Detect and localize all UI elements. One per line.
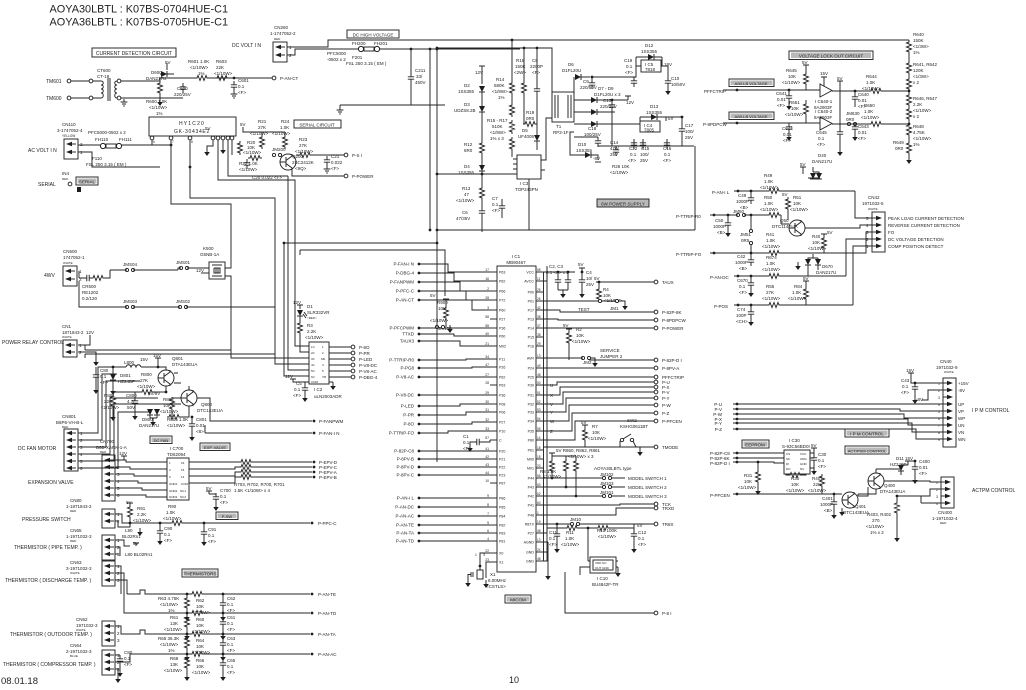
svg-text:D11: D11 (896, 456, 904, 461)
capacitor C7 (492, 196, 505, 218)
svg-text:COM: COM (311, 380, 319, 384)
svg-text:C600: C600 (177, 86, 188, 91)
svg-text:NC1: NC1 (180, 489, 186, 493)
svg-text:43: 43 (485, 463, 489, 467)
svg-text:VDD NC: VDD NC (595, 561, 607, 565)
svg-text:FH201: FH201 (374, 41, 388, 46)
svg-text:P-PFCEN: P-PFCEN (662, 419, 682, 424)
svg-text:TAUX: TAUX (662, 280, 674, 285)
resistor R800 (137, 372, 167, 395)
svg-text:1000P: 1000P (735, 260, 748, 265)
wire TMODE (585, 446, 654, 448)
svg-text:I C30: I C30 (789, 438, 800, 443)
svg-text:18: 18 (537, 455, 541, 459)
capacitor C90 (157, 522, 173, 545)
diode D2 1SS355 (458, 83, 485, 94)
capacitor C802 (93, 367, 116, 395)
wire to IC5 (592, 66, 641, 77)
thermistor wiring verticals (115, 566, 127, 610)
svg-text:C18: C18 (588, 126, 597, 131)
svg-text:JM630: JM630 (846, 111, 860, 116)
svg-text:D7 - D9: D7 - D9 (598, 86, 614, 91)
svg-text:C63: C63 (227, 636, 236, 641)
svg-text:C17: C17 (685, 123, 694, 128)
svg-text:V: V (550, 402, 553, 407)
zener D11 (890, 456, 913, 475)
svg-text:53: 53 (537, 408, 541, 412)
svg-text:P80: P80 (528, 439, 534, 443)
svg-text:AOYA30LBTL type: AOYA30LBTL type (594, 466, 632, 471)
svg-text:7818: 7818 (645, 67, 656, 72)
svg-text:P-V8-AC: P-V8-AC (396, 375, 415, 380)
svg-text:29: 29 (485, 391, 489, 395)
jumper JM100 (435, 320, 452, 333)
svg-text:1SS355: 1SS355 (646, 110, 663, 115)
capacitor C16 (663, 139, 672, 163)
transistor Q200 (280, 154, 314, 171)
resistor R12 6R0 (464, 112, 485, 155)
svg-text:P-V8-DC: P-V8-DC (396, 393, 415, 398)
svg-text:23: 23 (485, 558, 489, 562)
svg-text:P-TTRIP-FO: P-TTRIP-FO (389, 431, 415, 436)
resistor R644 (832, 74, 910, 94)
svg-text:P-FAN-I N: P-FAN-I N (319, 431, 340, 436)
svg-text:0.1: 0.1 (100, 374, 107, 379)
svg-text:<1/10W>: <1/10W> (760, 207, 779, 212)
svg-text:5V: 5V (803, 276, 809, 281)
svg-text:<1/10W>: <1/10W> (790, 207, 809, 212)
svg-text:D13: D13 (650, 104, 659, 109)
svg-text:100/25V: 100/25V (584, 132, 601, 137)
resistor R651 (785, 100, 809, 123)
svg-text:C91: C91 (208, 527, 217, 532)
svg-text:JM200: JM200 (272, 147, 286, 152)
svg-text:-8V: -8V (593, 156, 600, 161)
svg-text:R41: R41 (766, 232, 775, 237)
svg-text:<1/10W>: <1/10W> (861, 115, 880, 120)
IC5 7818 (641, 60, 672, 72)
SEC-FAN (18, 345, 344, 471)
svg-text:P-8PV-C: P-8PV-C (396, 473, 414, 478)
svg-text:C22: C22 (629, 146, 638, 151)
svg-text:RED: RED (62, 425, 69, 429)
capacitor C643 (852, 123, 869, 141)
svg-text:CN400: CN400 (938, 510, 953, 515)
resistors R646 R647 (907, 91, 938, 121)
svg-text:27K: 27K (766, 290, 774, 295)
net P-PFCEN (710, 493, 842, 498)
svg-text:R646, R647: R646, R647 (913, 96, 938, 101)
wire secondary top (121, 80, 160, 82)
svg-text:31: 31 (485, 408, 489, 412)
svg-text:P42: P42 (528, 495, 534, 499)
svg-text:I P M CONTROL: I P M CONTROL (850, 432, 884, 437)
-8V wire (916, 390, 943, 402)
svg-text:D801: D801 (120, 373, 131, 378)
svg-text:P87: P87 (499, 482, 505, 486)
svg-text:0.1: 0.1 (208, 533, 215, 538)
wire pin1 down (151, 140, 153, 145)
svg-text:NC2: NC2 (180, 495, 186, 499)
svg-text:CN42: CN42 (868, 195, 880, 200)
svg-text:C643: C643 (858, 124, 869, 129)
SEC-CURRENT (46, 48, 298, 116)
capacitor C91 (201, 522, 217, 546)
svg-text:DC FAN: DC FAN (154, 438, 169, 443)
wire to junction (160, 78, 196, 81)
label box 6W POWER SUPPLY (597, 199, 649, 207)
svg-text:IN4: IN4 (62, 171, 70, 176)
svg-text:A/W-LB VOLTAGE: A/W-LB VOLTAGE (734, 81, 767, 86)
diode D10 (570, 132, 601, 162)
relay K500 (196, 246, 225, 279)
svg-text:14: 14 (181, 475, 185, 479)
svg-text:C700: C700 (220, 488, 231, 493)
SEC-PSU (436, 39, 909, 232)
svg-text:P-PR: P-PR (359, 351, 371, 356)
svg-text:RED: RED (70, 509, 77, 513)
wire fuse right (380, 48, 520, 50)
svg-text:<1/3W>: <1/3W> (913, 74, 929, 79)
svg-text:R603: R603 (216, 59, 227, 64)
svg-text:47: 47 (485, 363, 489, 367)
connector CN63 (66, 560, 120, 586)
svg-text:7805: 7805 (644, 128, 655, 133)
resistor R649 0R0 (893, 140, 912, 164)
hybrid IC HY1C20 (149, 117, 236, 144)
wire bus second (300, 250, 445, 296)
svg-text:17: 17 (485, 268, 489, 272)
svg-text:10/: 10/ (586, 276, 593, 281)
IC1 right pins (524, 268, 547, 563)
svg-text:60: 60 (537, 501, 541, 505)
capacitor C21 (324, 154, 343, 173)
resistors R860 R862 R861 (549, 448, 601, 497)
svg-text:<1/10W>: <1/10W> (214, 71, 233, 76)
svg-text:0.1: 0.1 (220, 494, 227, 499)
svg-text:CS: CS (786, 452, 790, 456)
svg-text:<1/10W>: <1/10W> (762, 244, 781, 249)
wire staircase from CN801 (78, 367, 126, 433)
svg-text:42: 42 (485, 455, 489, 459)
svg-text:DO: DO (786, 467, 791, 471)
svg-text:P63: P63 (499, 384, 505, 388)
svg-text:0R0: 0R0 (526, 116, 535, 121)
svg-text:48: 48 (537, 557, 541, 561)
capacitor C30 (811, 443, 827, 475)
svg-text:10K: 10K (196, 664, 204, 669)
svg-text:1.0K: 1.0K (792, 290, 801, 295)
svg-text:C5: C5 (296, 381, 302, 386)
svg-text:R601 1.0K: R601 1.0K (188, 59, 209, 64)
svg-text:5V: 5V (205, 126, 211, 131)
svg-text:<1/10W>: <1/10W> (101, 405, 120, 410)
svg-text:P-PFCPWM: P-PFCPWM (390, 326, 415, 331)
wire bottom run (79, 281, 275, 307)
wire to P-AN-CT (209, 77, 272, 79)
wire P-8PV-A (543, 367, 654, 369)
svg-text:PFC5000: PFC5000 (327, 51, 347, 56)
svg-text:P-AN-TA: P-AN-TA (318, 632, 336, 637)
FOOTER (1, 675, 519, 687)
svg-text:15V: 15V (153, 353, 161, 358)
svg-text:C641: C641 (776, 91, 787, 96)
svg-text:5V: 5V (240, 122, 246, 127)
svg-text:P-AN-TA: P-AN-TA (396, 531, 414, 536)
svg-text:GND: GND (526, 560, 534, 564)
resistor R21 (250, 119, 269, 149)
driver IC2 ULN2003 (303, 342, 343, 399)
svg-text:1.0K: 1.0K (565, 536, 574, 541)
svg-text:<F>: <F> (858, 136, 866, 141)
svg-text:P66: P66 (499, 290, 505, 294)
svg-text:12V: 12V (196, 268, 204, 273)
svg-text:P14: P14 (528, 327, 534, 331)
svg-text:TEST: TEST (578, 307, 590, 312)
svg-text:P-TTRIP-R0: P-TTRIP-R0 (676, 214, 701, 219)
capacitor C640 (852, 90, 869, 109)
svg-text:P-FANPWM: P-FANPWM (319, 419, 344, 424)
svg-text:P13: P13 (528, 318, 534, 322)
svg-text:27K: 27K (299, 143, 307, 148)
capacitor C601 (231, 77, 250, 98)
snubber CR500 (79, 270, 110, 301)
svg-text:VCC: VCC (800, 452, 807, 456)
svg-text:P-AN-CT: P-AN-CT (396, 298, 414, 303)
svg-text:8.00MHz: 8.00MHz (488, 578, 507, 583)
svg-text:CN65: CN65 (70, 528, 82, 533)
long wires to ULN (85, 349, 231, 351)
svg-text:P27: P27 (499, 318, 505, 322)
svg-text:DAN217U: DAN217U (139, 423, 159, 428)
terminal SERIAL IN4 (38, 171, 98, 192)
wire ic3 down (482, 179, 529, 232)
diode D13 (640, 104, 666, 121)
svg-text:SERIAL: SERIAL (38, 182, 56, 188)
svg-text:D6: D6 (568, 62, 574, 67)
svg-text:WHITE: WHITE (868, 207, 878, 211)
svg-text:CN700: CN700 (100, 439, 115, 444)
svg-text:R805 1.0K: R805 1.0K (167, 417, 188, 422)
svg-text:JMS04: JMS04 (123, 262, 138, 267)
svg-text:SK: SK (786, 457, 790, 461)
svg-text:DC VOLT I N: DC VOLT I N (232, 43, 261, 49)
capacitor C641 (776, 89, 792, 110)
svg-text:120K: 120K (913, 68, 924, 73)
svg-text:100P: 100P (736, 313, 747, 318)
svg-text:R4: R4 (603, 287, 609, 292)
svg-text:P26: P26 (499, 366, 505, 370)
svg-text:49: 49 (537, 364, 541, 368)
svg-text:510K: 510K (492, 124, 503, 129)
wire 5V hook (204, 126, 213, 156)
connector CN1 (62, 324, 84, 357)
svg-text:6R0: 6R0 (464, 148, 473, 153)
svg-text:P-AN-CT: P-AN-CT (280, 76, 298, 81)
row P-AN-AC (115, 652, 337, 682)
svg-text:P-AN-I L: P-AN-I L (397, 496, 415, 501)
vcc bus (543, 266, 575, 281)
svg-text:THERMISTOR ( OUTDOOR TEMP. ): THERMISTOR ( OUTDOOR TEMP. ) (10, 632, 92, 638)
SEC-IPM (713, 359, 1009, 447)
svg-text:RED: RED (100, 450, 107, 454)
svg-text:12V: 12V (119, 451, 127, 456)
svg-text:B6P6-VH-B-L: B6P6-VH-B-L (56, 420, 84, 425)
net P-U (714, 402, 943, 407)
svg-text:DAN217U: DAN217U (812, 159, 832, 164)
svg-text:29: 29 (537, 342, 541, 346)
svg-text:P11: P11 (499, 358, 505, 362)
svg-text:WHITE: WHITE (63, 261, 73, 265)
svg-text:CR500: CR500 (82, 284, 97, 289)
svg-text:1SS355: 1SS355 (458, 89, 475, 94)
svg-text:P-82P-8K: P-82P-8K (662, 310, 682, 315)
jumper JMS02 (176, 299, 191, 309)
label box EEPROM (742, 440, 769, 448)
svg-text:P00: P00 (528, 291, 534, 295)
svg-text:<F>: <F> (777, 103, 785, 108)
jumper JM10 TR8X (543, 517, 654, 526)
svg-text:10K: 10K (196, 623, 204, 628)
svg-text:RP2-1F: RP2-1F (553, 130, 569, 135)
wire relay bottom (225, 276, 231, 307)
svg-text:PRESSURE SWITCH: PRESSURE SWITCH (22, 517, 71, 523)
svg-text:5: 5 (487, 521, 489, 525)
terminal P-S I (344, 153, 362, 158)
svg-text:<1/10W>: <1/10W> (160, 642, 179, 647)
svg-text:C4: C4 (586, 270, 592, 275)
svg-text:P86: P86 (499, 497, 505, 501)
svg-text:52: 52 (537, 400, 541, 404)
svg-text:Q400: Q400 (884, 483, 896, 488)
svg-text:M00: M00 (527, 458, 534, 462)
wire serial out (296, 154, 344, 156)
svg-text:TAUX3: TAUX3 (400, 339, 415, 344)
svg-text:<F>: <F> (549, 542, 557, 547)
svg-text:RED: RED (940, 521, 947, 525)
capacitor C4 (578, 262, 594, 298)
wire TAUX (599, 281, 654, 283)
svg-text:<F>: <F> (227, 670, 235, 675)
svg-text:14: 14 (537, 436, 541, 440)
svg-text:P22: P22 (499, 466, 505, 470)
svg-text:0R0: 0R0 (846, 117, 855, 122)
wire T1 to IC3 (545, 118, 552, 160)
wire bus x437 lower (436, 243, 438, 462)
svg-text:5V: 5V (837, 76, 843, 81)
svg-text:CN1: CN1 (62, 324, 71, 329)
svg-text:DI: DI (786, 462, 789, 466)
svg-text:P-FAN-I N: P-FAN-I N (393, 262, 414, 267)
svg-text:AOYA30LBTL : K07BS-0704HUE-C1: AOYA30LBTL : K07BS-0704HUE-C1 (50, 4, 229, 16)
svg-text:I C1: I C1 (512, 254, 521, 259)
svg-text:<1/10W>: <1/10W> (133, 518, 152, 523)
svg-text:JM101: JM101 (600, 490, 614, 495)
svg-text:19: 19 (537, 520, 541, 524)
resistor R7 SW2 (543, 420, 607, 447)
svg-text:0.1: 0.1 (227, 621, 234, 626)
svg-text:R64: R64 (196, 638, 205, 643)
svg-text:GND3: GND3 (169, 495, 178, 499)
svg-text:<RED>: <RED> (307, 316, 317, 320)
svg-text:P48: P48 (528, 514, 534, 518)
svg-text:C49: C49 (738, 193, 747, 198)
svg-text:5V: 5V (581, 420, 587, 425)
svg-text:<1/10W>: <1/10W> (866, 524, 885, 529)
capacitor C10 (661, 66, 685, 95)
svg-text:<B>: <B> (824, 508, 833, 513)
svg-text:<1/10W>: <1/10W> (164, 668, 183, 673)
svg-text:P21: P21 (499, 458, 505, 462)
svg-text:R649: R649 (893, 140, 904, 145)
resistor R51 (782, 192, 809, 220)
svg-text:X1: X1 (499, 561, 503, 565)
svg-text:PFFCTRIP: PFFCTRIP (704, 89, 726, 94)
svg-text:RED: RED (62, 177, 69, 181)
svg-text:P-82P-D I: P-82P-D I (710, 461, 730, 466)
transistor Q801 (158, 356, 197, 392)
wire emitter to P-POWER (292, 168, 344, 176)
svg-text:21: 21 (485, 342, 489, 346)
svg-text:P08: P08 (499, 403, 505, 407)
svg-text:12V: 12V (293, 300, 301, 305)
svg-text:C800: C800 (126, 393, 137, 398)
svg-text:13K: 13K (170, 662, 178, 667)
svg-text:P-AN-TD: P-AN-TD (318, 611, 337, 616)
svg-text:P-AN-DC: P-AN-DC (710, 275, 729, 280)
svg-text:6W POWER SUPPLY: 6W POWER SUPPLY (601, 202, 645, 207)
inductor L800 (124, 360, 160, 367)
svg-text:1%: 1% (156, 111, 163, 116)
svg-text:-0502 x 2: -0502 x 2 (327, 57, 346, 62)
LED D1 SLR332VR (293, 300, 330, 320)
svg-text:10K: 10K (812, 240, 820, 245)
svg-text:DC FAN MOTOR: DC FAN MOTOR (18, 446, 57, 452)
fuse FH200 FH201 (327, 41, 388, 66)
svg-text:<1/10W>: <1/10W> (164, 627, 183, 632)
svg-text:C74: C74 (737, 307, 746, 312)
svg-text:R641, R642: R641, R642 (913, 62, 938, 67)
net P-X (714, 417, 943, 425)
label box AW-LB VOLTAGE 2 (729, 112, 774, 120)
svg-text:JMS02: JMS02 (176, 299, 191, 304)
capacitor C11 (549, 524, 560, 553)
svg-text:TTXD: TTXD (402, 332, 414, 337)
IC1 ground (543, 542, 548, 573)
svg-text:AC VOLT I N: AC VOLT I N (28, 148, 57, 154)
svg-text:0.1: 0.1 (492, 202, 499, 207)
svg-text:CN62: CN62 (76, 617, 88, 622)
svg-text:<2W>: <2W> (514, 70, 526, 75)
svg-text:R600 1.0K: R600 1.0K (146, 99, 167, 104)
svg-text:<1/10W>: <1/10W> (598, 534, 617, 539)
svg-text:AVCC: AVCC (524, 280, 534, 284)
jumper JM1 TEST (543, 299, 628, 312)
svg-text:DTC114EUA: DTC114EUA (772, 224, 798, 229)
svg-text:FSL 250 3.15 ( EM ): FSL 250 3.15 ( EM ) (346, 61, 387, 66)
IC1 left net labels (389, 262, 490, 544)
label box MICOM (505, 595, 531, 603)
svg-text:A/W-LB VOLTAGE: A/W-LB VOLTAGE (734, 114, 767, 119)
svg-text:PEAK LOAD CURRENT DETECTION: PEAK LOAD CURRENT DETECTION (888, 216, 964, 221)
svg-text:<1/10W>: <1/10W> (785, 112, 804, 117)
SEC-LOCKOUT (703, 32, 938, 164)
svg-text:5V: 5V (430, 293, 436, 298)
svg-text:L80 BL02Rn1: L80 BL02Rn1 (125, 552, 153, 557)
net P-Z (715, 427, 943, 439)
svg-text:P85: P85 (499, 506, 505, 510)
svg-text:DTC143EUA: DTC143EUA (843, 510, 869, 515)
